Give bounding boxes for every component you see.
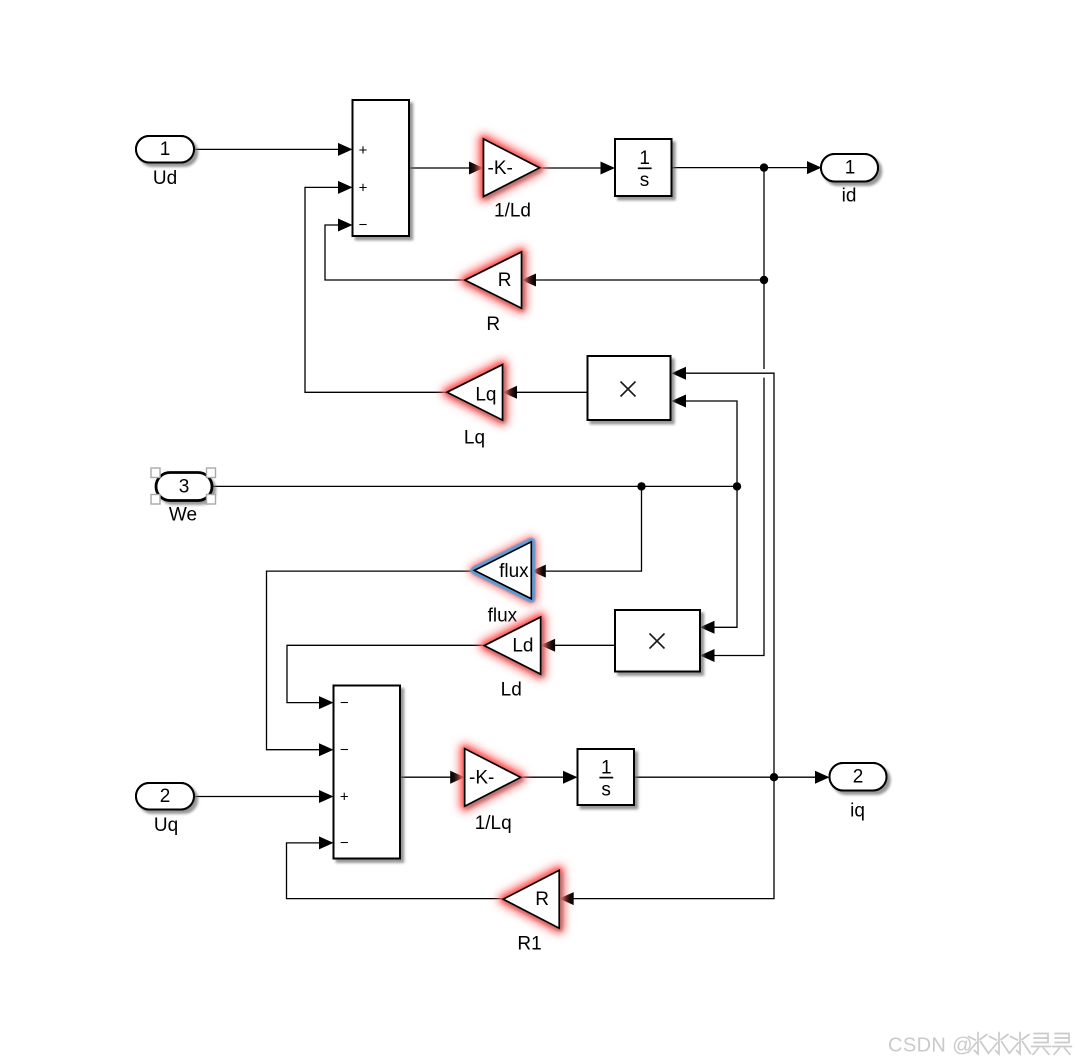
multiply symbol xyxy=(650,634,665,649)
svg-text:-K-: -K- xyxy=(488,158,513,179)
svg-text:1/Ld: 1/Ld xyxy=(494,201,531,222)
wire gain R1 out to Sum2 in4 xyxy=(287,843,504,899)
arrow into Sum2 in2 xyxy=(319,743,334,756)
svg-text:CSDN @: CSDN @ xyxy=(888,1035,973,1057)
arrow into gain R xyxy=(522,274,537,287)
arrow into gain flux xyxy=(531,565,546,578)
svg-text:+: + xyxy=(359,180,368,197)
glyph shui 3 xyxy=(1017,1033,1021,1055)
svg-text:Uq: Uq xyxy=(154,815,178,836)
wire gain flux out to Sum2 in2 xyxy=(267,571,475,750)
svg-text:Ud: Ud xyxy=(153,168,177,189)
arrow into gain R1 xyxy=(559,892,574,905)
wire We node down to gain flux xyxy=(546,486,642,571)
wire We node down to product P2 in1 xyxy=(715,486,738,627)
svg-text:−: − xyxy=(340,694,349,711)
svg-text:1: 1 xyxy=(160,139,171,160)
wire Sum1 out to gain 1/Ld xyxy=(409,167,470,169)
wire gain 1/Lq to integrator I2 xyxy=(521,776,564,778)
glyph shui 1 xyxy=(975,1033,979,1055)
arrow into Sum2 in4 xyxy=(319,836,334,849)
svg-text:2: 2 xyxy=(160,786,171,807)
arrow into product P2 in2 xyxy=(700,649,715,662)
svg-text:R: R xyxy=(498,270,512,291)
svg-text:s: s xyxy=(601,779,611,800)
svg-text:s: s xyxy=(640,170,650,191)
svg-text:R1: R1 xyxy=(517,933,541,954)
arrow into gain 1/Lq xyxy=(450,771,465,784)
svg-text:flux: flux xyxy=(488,606,518,627)
arrow into Sum2 in1 xyxy=(319,696,334,709)
arrow into gain Ld xyxy=(541,639,556,652)
glyph ling 2 xyxy=(1055,1034,1069,1043)
svg-text:−: − xyxy=(359,216,368,233)
wire gain Lq out to Sum1 in2 xyxy=(305,187,447,392)
arrow into gain Lq xyxy=(503,386,518,399)
svg-text:1: 1 xyxy=(845,158,856,179)
svg-text:1: 1 xyxy=(601,758,612,779)
wire iq node down to gain R1 xyxy=(574,777,775,898)
arrow into Sum1 in3 xyxy=(338,219,353,232)
arrow into Sum2 in3 xyxy=(319,790,334,803)
svg-text:Lq: Lq xyxy=(475,384,496,405)
svg-text:flux: flux xyxy=(499,561,529,582)
arrow into outport id xyxy=(807,161,822,174)
wire id node down to product P2 in2 (with crossing gap at y=373) xyxy=(763,280,765,369)
svg-text:+: + xyxy=(340,788,349,805)
svg-text:We: We xyxy=(169,504,197,525)
node R feedback branch xyxy=(760,276,768,284)
svg-text:−: − xyxy=(340,742,349,759)
wire product P1 out to gain Lq xyxy=(517,391,588,393)
svg-text:Ld: Ld xyxy=(501,680,522,701)
arrow into gain 1/Ld xyxy=(469,162,484,175)
arrow into product P2 in1 xyxy=(700,621,715,634)
svg-text:id: id xyxy=(842,186,857,207)
node iq branch xyxy=(770,773,778,781)
svg-text:1: 1 xyxy=(639,148,650,169)
wire Sum2 out to gain 1/Lq xyxy=(400,776,451,778)
wire I1 to outport id xyxy=(672,167,808,169)
wire junction to gain R xyxy=(536,279,764,281)
wire Uq to Sum2 in3 xyxy=(194,796,320,798)
wire product P2 out to gain Ld xyxy=(555,644,615,646)
wire gain Ld out to Sum2 in1 xyxy=(287,645,484,702)
arrow into outport iq xyxy=(815,771,830,784)
arrow into Sum1 in2 xyxy=(338,181,353,194)
node We flux branch xyxy=(637,482,645,490)
wire id node down to R gain input xyxy=(763,168,765,280)
svg-text:3: 3 xyxy=(179,477,190,498)
wire gain 1/Ld to integrator I1 xyxy=(540,167,602,169)
multiply symbol xyxy=(621,382,636,397)
glyph shui 2 xyxy=(996,1033,1000,1055)
wire We branch to product P1 in2 xyxy=(686,401,737,486)
node id branch xyxy=(760,163,768,171)
glyph ling 1 xyxy=(1034,1034,1048,1043)
svg-text:−: − xyxy=(340,835,349,852)
wire gain R out to Sum1 in3 xyxy=(325,225,465,280)
arrow into Sum1 in1 xyxy=(338,143,353,156)
wire I2 to outport iq xyxy=(635,776,816,778)
svg-text:1/Lq: 1/Lq xyxy=(475,813,512,834)
node We product branch xyxy=(733,482,741,490)
arrow into product P1 in2 xyxy=(672,395,687,408)
svg-text:R: R xyxy=(486,314,500,335)
wire We to branch node xyxy=(212,485,737,487)
arrow into integrator I2 xyxy=(563,771,578,784)
svg-text:R: R xyxy=(535,889,549,910)
svg-text:-K-: -K- xyxy=(469,767,494,788)
wire Ud to Sum1 in1 xyxy=(194,148,339,150)
selection handles xyxy=(151,468,216,504)
svg-text:2: 2 xyxy=(853,767,864,788)
svg-text:iq: iq xyxy=(850,800,865,821)
svg-text:Lq: Lq xyxy=(464,428,485,449)
svg-text:+: + xyxy=(359,142,368,159)
wire iq feedback up to product P1 in1 xyxy=(686,373,774,777)
arrow into product P1 in1 xyxy=(672,367,687,380)
svg-text:Ld: Ld xyxy=(512,635,533,656)
arrow into integrator I1 xyxy=(601,162,616,175)
